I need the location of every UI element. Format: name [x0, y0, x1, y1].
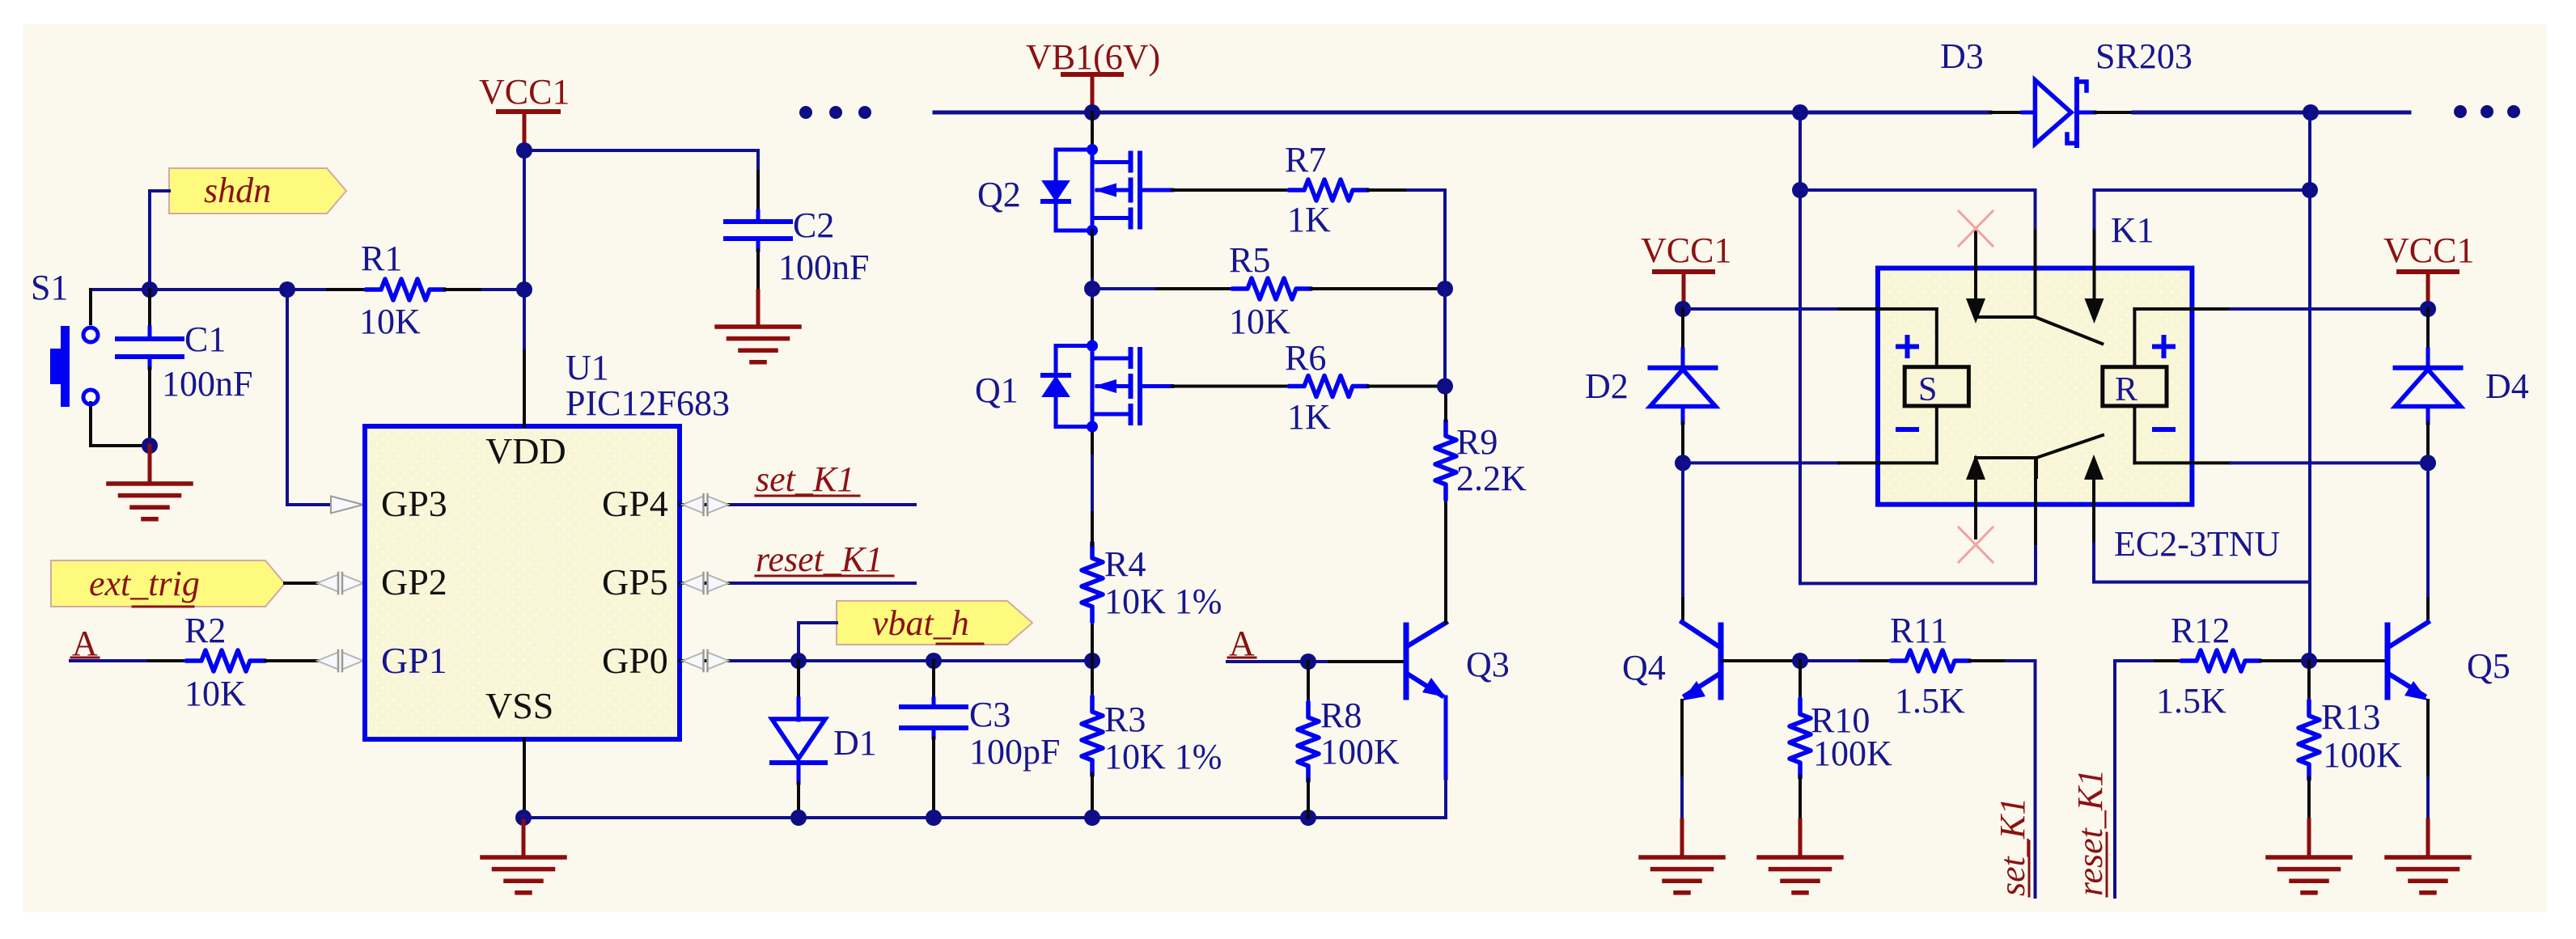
transistor Q3 (NPN): [1406, 623, 1510, 697]
resistor R8: [1298, 662, 1400, 818]
diode D2: [1585, 309, 1716, 463]
wire relay bottom-right terminal to Q5 base node: [2094, 477, 2310, 661]
net label set_K1: [756, 459, 859, 499]
net label reset_K1: [756, 539, 893, 579]
resistor R12: [2156, 611, 2260, 721]
svg-text:Q4: Q4: [1622, 648, 1666, 687]
svg-text:1K: 1K: [1287, 200, 1331, 239]
svg-text:PIC12F683: PIC12F683: [566, 383, 730, 423]
svg-text:R1: R1: [361, 239, 402, 278]
svg-text:2.2K: 2.2K: [1456, 459, 1527, 498]
svg-text:VSS: VSS: [485, 685, 553, 726]
svg-text:VCC1: VCC1: [479, 72, 570, 112]
relay bottom contact: [1966, 435, 2104, 538]
wire D2 bottom to Q4 collector: [1681, 463, 1684, 622]
wire Q4 base to node: [1722, 659, 1800, 662]
wire VCC1 node to S coil top: [1683, 307, 1937, 311]
svg-text:C1: C1: [184, 319, 226, 359]
wire GP4 to set_K1: [680, 503, 915, 506]
diode D4: [2396, 309, 2529, 463]
svg-text:D3: D3: [1940, 36, 1984, 76]
resistor R5: [1229, 240, 1311, 341]
pin indicator GP5: [683, 573, 729, 594]
svg-text:reset_K1: reset_K1: [756, 539, 883, 579]
wire GP0 row: [680, 659, 1092, 662]
svg-text:R13: R13: [2321, 697, 2380, 737]
wire column R5 to R6: [1443, 289, 1447, 386]
node C1 bottom: [142, 438, 158, 454]
wire Q4 emitter to ground: [1680, 700, 1684, 857]
node VCC1 junction: [516, 142, 532, 159]
svg-text:R: R: [2115, 371, 2137, 408]
svg-text:U1: U1: [566, 348, 609, 387]
node D2 bottom: [1675, 455, 1691, 471]
node VCC1/D4: [2420, 301, 2436, 317]
wire Q3 emitter to bus: [1444, 697, 1448, 818]
resistor R7: [1172, 140, 1408, 239]
node Q1/Q2/R5: [1084, 281, 1100, 297]
node bus D1: [790, 810, 807, 826]
svg-text:R4: R4: [1104, 544, 1146, 584]
wire A to R2: [70, 659, 186, 662]
svg-text:VCC1: VCC1: [1641, 231, 1731, 270]
net label reset_K1 (vertical): [2070, 769, 2110, 896]
wire VCC1 down to VDD: [523, 150, 526, 351]
svg-text:vbat_h: vbat_h: [872, 603, 969, 643]
svg-text:GP3: GP3: [381, 483, 447, 524]
node R5/R7 column: [1437, 281, 1453, 297]
svg-text:100pF: 100pF: [969, 732, 1060, 772]
node VB1: [1084, 104, 1100, 121]
wire shdn flag to row: [150, 191, 169, 290]
relay coil S: [1898, 309, 1968, 463]
ground under C1: [108, 446, 191, 519]
net flag vbat_h: [837, 601, 1032, 645]
node Q4 base/R10: [1792, 653, 1808, 669]
capacitor C1: [117, 290, 252, 446]
wire vbat_h flag to GP0 row: [799, 623, 837, 661]
svg-text:shdn: shdn: [204, 171, 271, 210]
svg-text:100K: 100K: [1813, 734, 1892, 773]
svg-text:GP4: GP4: [602, 483, 668, 524]
svg-text:EC2-3TNU: EC2-3TNU: [2114, 524, 2280, 564]
wire top bus (right of D3): [2095, 111, 2409, 114]
svg-text:SR203: SR203: [2095, 36, 2193, 76]
switch S1: [31, 268, 98, 446]
wire R12 to Q5 base: [2260, 659, 2385, 662]
svg-text:VCC1: VCC1: [2383, 231, 2474, 270]
dots continuation left: [799, 106, 871, 119]
svg-text:R9: R9: [1456, 422, 1498, 462]
resistor R1: [359, 239, 445, 341]
wire R coil bottom to D4 bottom: [2134, 461, 2428, 464]
ground under VSS: [482, 818, 565, 893]
wire R11 to set_K1 drop: [1970, 661, 2036, 897]
svg-text:10K 1%: 10K 1%: [1104, 582, 1222, 621]
svg-text:R8: R8: [1320, 696, 1362, 735]
svg-text:1.5K: 1.5K: [2156, 681, 2226, 721]
capacitor C2: [726, 171, 869, 287]
svg-text:C3: C3: [969, 695, 1010, 734]
svg-text:100K: 100K: [1320, 732, 1400, 772]
svg-text:10K: 10K: [1229, 302, 1290, 341]
wire reset_K1 drop to R12: [2115, 661, 2181, 897]
node rail2 right: [2302, 182, 2318, 198]
svg-text:10K 1%: 10K 1%: [1104, 737, 1222, 776]
net label set_K1 (vertical): [1993, 797, 2032, 896]
wire R1 to VCC1 column: [445, 288, 524, 291]
svg-text:D2: D2: [1585, 366, 1629, 406]
wire R coil top to VCC1 node: [2134, 307, 2428, 311]
resistor R4: [1082, 427, 1222, 661]
wire R5 to column: [1311, 287, 1445, 290]
wire A to Q3 base: [1227, 660, 1405, 663]
no-connect X bottom: [1959, 527, 1993, 562]
resistor R6: [1172, 338, 1445, 437]
pin indicator GP2: [317, 573, 363, 594]
wire D4 bottom to Q5 collector: [2426, 463, 2430, 622]
node D1 top: [790, 653, 807, 669]
svg-text:VDD: VDD: [485, 430, 566, 472]
svg-text:Q3: Q3: [1466, 645, 1510, 684]
pin indicator GP4: [683, 494, 729, 515]
net flag shdn: [169, 168, 346, 214]
node bus left of D3: [1792, 104, 1808, 121]
svg-text:GP1: GP1: [381, 640, 447, 681]
pin indicator GP0: [683, 650, 729, 671]
wire top bus (left of D3): [934, 111, 2023, 115]
net flag ext_trig: [51, 560, 285, 607]
svg-text:S: S: [1918, 371, 1937, 408]
wire S1 row (shdn net): [91, 288, 366, 291]
node bus right of D3: [2303, 104, 2319, 121]
wire battery to relay bottom-left terminal: [1800, 458, 2036, 583]
svg-text:100nF: 100nF: [162, 364, 252, 404]
svg-text:reset_K1: reset_K1: [2070, 769, 2110, 896]
svg-text:R12: R12: [2171, 611, 2230, 650]
node GP3 branch: [279, 281, 295, 298]
ground under R13: [2268, 820, 2350, 893]
svg-text:100K: 100K: [2323, 735, 2402, 775]
wire VB1 to Q2: [1091, 112, 1094, 146]
node bus C3: [926, 810, 942, 826]
wire R2 to GP1: [265, 659, 335, 662]
transistor Q5 (NPN): [2387, 622, 2510, 700]
wire rail2 to relay top-left terminal: [1800, 190, 2036, 317]
wire Q2 drain to node: [1091, 231, 1094, 289]
diode D3 (Schottky SR203): [1940, 36, 2193, 146]
svg-text:R5: R5: [1229, 240, 1270, 280]
svg-text:K1: K1: [2111, 210, 2154, 250]
node R4/R3: [1084, 653, 1100, 669]
ground under C2: [717, 327, 799, 362]
power symbol VB1(6V): [1026, 37, 1160, 112]
svg-text:Q2: Q2: [977, 175, 1021, 214]
resistor R10: [1790, 661, 1892, 820]
svg-text:Q5: Q5: [2467, 646, 2510, 686]
wire node to Q1: [1091, 289, 1094, 340]
svg-text:D4: D4: [2485, 366, 2529, 406]
svg-text:R7: R7: [1285, 140, 1326, 180]
node R13 top: [2301, 653, 2317, 669]
power symbol VCC1 (relay right): [2383, 231, 2474, 309]
svg-text:R11: R11: [1890, 611, 1948, 650]
resistor R2: [184, 611, 265, 713]
wire C2 to ground: [756, 250, 760, 327]
pin VSS: [523, 739, 526, 818]
svg-text:GP2: GP2: [381, 561, 447, 603]
wire relay top-right terminal to rail: [2095, 190, 2311, 301]
pin indicator GP1: [317, 650, 363, 671]
transistor Q4 (PNP): [1622, 622, 1721, 700]
IC U1 PIC12F683: [365, 348, 730, 739]
capacitor C3: [901, 661, 1060, 818]
resistor R9: [1435, 386, 1527, 500]
node VCC1/D2: [1675, 301, 1691, 317]
dots continuation right: [2454, 105, 2520, 118]
svg-text:C2: C2: [793, 205, 834, 245]
wire node to R11: [1800, 659, 1891, 662]
relay K1 box EC2-3TNU: [1878, 210, 2280, 564]
power symbol VCC1 (relay left): [1641, 231, 1731, 309]
wire ext_trig to GP2: [285, 582, 335, 585]
svg-text:S1: S1: [31, 268, 68, 307]
wire R7 corner down: [1408, 190, 1445, 289]
wire S1 bottom to C1 bottom: [91, 444, 150, 447]
svg-text:set_K1: set_K1: [1993, 797, 2032, 896]
net label A (right): [1228, 624, 1256, 663]
svg-text:GP5: GP5: [602, 561, 668, 603]
wire Q5 emitter to ground: [2426, 700, 2430, 857]
svg-text:R2: R2: [184, 611, 226, 650]
wire D2 bottom to S coil bottom: [1683, 461, 1937, 464]
transistor Q2 (P-MOSFET with body diode): [977, 144, 1172, 236]
node R8 top: [1300, 653, 1316, 670]
svg-text:Q1: Q1: [975, 370, 1019, 410]
svg-text:100nF: 100nF: [778, 247, 869, 287]
svg-text:ext_trig: ext_trig: [89, 564, 200, 603]
wire GP3 branch: [287, 290, 335, 505]
resistor R11: [1890, 611, 1970, 721]
svg-text:1K: 1K: [1287, 397, 1331, 437]
node shdn/C1: [142, 281, 158, 298]
resistor R3: [1082, 661, 1222, 818]
node D4 bottom: [2420, 455, 2436, 471]
ground under Q5: [2387, 857, 2469, 893]
svg-text:R3: R3: [1104, 700, 1146, 739]
node C3 top: [926, 653, 942, 669]
svg-text:D1: D1: [833, 723, 877, 763]
wire battery column: [1799, 112, 1802, 583]
wire R5 row: [1092, 287, 1232, 290]
wire right battery column: [2308, 112, 2311, 582]
resistor R13: [2298, 661, 2402, 820]
node rail2: [1792, 182, 1808, 198]
node R1/VDD junction: [516, 281, 532, 298]
net label A (left): [71, 624, 99, 663]
svg-text:GP0: GP0: [602, 640, 668, 681]
svg-text:10K: 10K: [184, 674, 246, 713]
ground under R10: [1759, 820, 1841, 893]
svg-text:set_K1: set_K1: [756, 459, 854, 499]
node VSS bottom: [515, 810, 532, 826]
transistor Q1 (P-MOSFET with body diode): [975, 340, 1172, 433]
wire bottom bus: [523, 816, 1446, 819]
wire Q3 collector to R9: [1444, 490, 1447, 623]
node R6/R9 column: [1437, 379, 1453, 395]
relay coil R: [2103, 309, 2173, 463]
svg-text:R6: R6: [1285, 338, 1326, 378]
diode D1: [772, 661, 877, 818]
pin VDD: [523, 351, 526, 426]
node bus R3: [1084, 810, 1100, 826]
svg-text:10K: 10K: [359, 302, 421, 341]
ground under Q4: [1641, 857, 1723, 893]
no-connect X top: [1959, 211, 1993, 246]
wire VCC1 to C2: [524, 150, 758, 171]
svg-text:1.5K: 1.5K: [1895, 681, 1965, 721]
power symbol VCC1 (left): [479, 72, 570, 150]
pin indicator GP3 (input arrow): [331, 497, 363, 514]
node bus R8: [1300, 810, 1316, 826]
relay top contact: [1966, 229, 2104, 344]
wire GP5 to reset_K1: [680, 582, 915, 585]
svg-text:VB1(6V): VB1(6V): [1026, 37, 1160, 77]
